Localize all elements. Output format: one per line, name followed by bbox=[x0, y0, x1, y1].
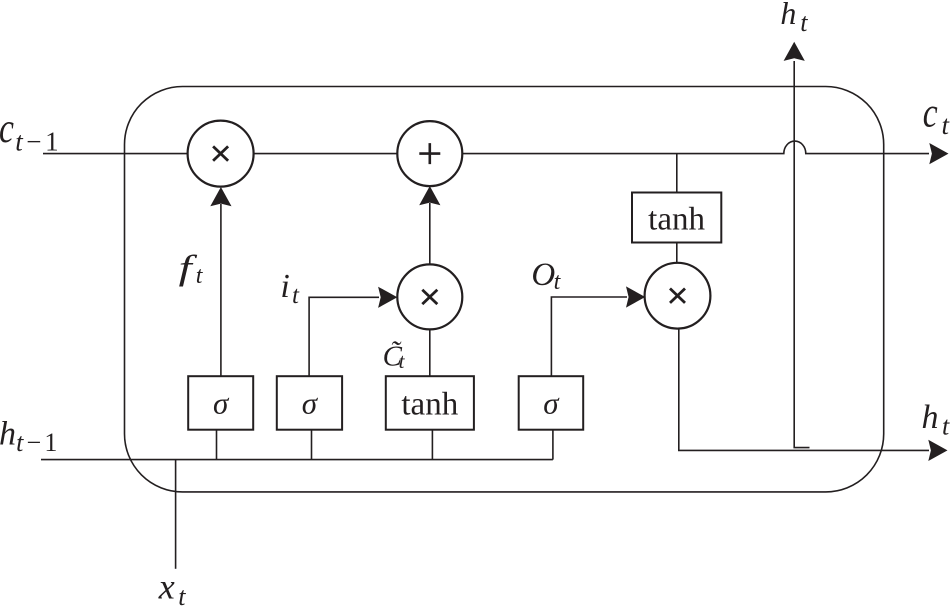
sigma box 2 (input gate) bbox=[277, 376, 342, 430]
svg-text:h: h bbox=[922, 399, 939, 436]
arrowhead into plus circle bbox=[419, 186, 440, 205]
wire: h_t vertical branch up to top with foot bbox=[794, 61, 809, 448]
wire: cell state line c with hop over h_t vertical bbox=[43, 141, 929, 154]
arrowhead into multiply circle 3 bbox=[626, 286, 645, 307]
multiply circle 1 (forget gate product) bbox=[188, 121, 254, 187]
svg-text:σ: σ bbox=[302, 386, 319, 421]
wire: f_t vertical from sigma1 up to multiply circle bbox=[220, 204, 222, 376]
svg-text:h: h bbox=[780, 0, 796, 31]
plus circle (cell state addition) bbox=[397, 121, 462, 186]
wire: h_(t-1) input line along bottom bbox=[41, 459, 553, 461]
wire: sigma2 bottom stub bbox=[311, 430, 313, 460]
svg-text:σ: σ bbox=[543, 386, 560, 421]
svg-text:t: t bbox=[942, 110, 950, 140]
label x_t bbox=[158, 566, 186, 607]
arrowhead c_t output bbox=[929, 143, 948, 164]
wire: gate tanh bottom stub bbox=[431, 430, 433, 460]
wire: from c line down into top tanh box bbox=[676, 154, 678, 193]
svg-text:t−1: t−1 bbox=[15, 126, 62, 156]
svg-text:x: x bbox=[158, 566, 175, 606]
wire: top tanh box down to multiply circle 3 bbox=[676, 243, 678, 263]
label C~_t (candidate) bbox=[383, 340, 406, 373]
arrowhead h_t right output bbox=[928, 440, 947, 461]
arrowhead h_t top output bbox=[784, 42, 805, 61]
svg-text:t: t bbox=[399, 349, 406, 373]
label h_t top bbox=[780, 0, 808, 37]
wire: x_t drop from h line bbox=[175, 460, 177, 569]
label c_t right bbox=[923, 90, 950, 140]
svg-text:t: t bbox=[178, 582, 186, 607]
label O_t bbox=[531, 257, 561, 295]
svg-text:c: c bbox=[923, 90, 938, 136]
multiply circle 3 (output gate product) bbox=[645, 263, 711, 329]
label c_(t-1) bbox=[0, 106, 62, 157]
svg-text:t: t bbox=[554, 269, 562, 295]
LSTM cell body rounded rectangle bbox=[125, 87, 884, 492]
svg-text:h: h bbox=[0, 416, 16, 453]
sigma box 3 (output gate) bbox=[519, 376, 584, 430]
svg-text:t−1: t−1 bbox=[16, 428, 61, 457]
wire: h output from multiply circle 3 down then right bbox=[679, 329, 929, 451]
multiply circle 2 (input gate product) bbox=[397, 264, 462, 329]
arrowhead into multiply circle 1 bbox=[210, 187, 231, 206]
wire: sigma1 bottom stub bbox=[216, 430, 218, 460]
wire: i_t from sigma2 up and right to multiply circle 2 bbox=[309, 297, 379, 376]
svg-text:t: t bbox=[292, 282, 300, 309]
svg-text:tanh: tanh bbox=[648, 202, 705, 238]
wire: sigma3 bottom stub bbox=[552, 430, 554, 460]
wire: candidate from gate tanh box up to multiply circle 2 bbox=[429, 329, 431, 376]
svg-text:t: t bbox=[942, 411, 950, 440]
label h_(t-1) bbox=[0, 416, 61, 458]
svg-text:i: i bbox=[280, 268, 289, 305]
label h_t right bbox=[922, 399, 950, 440]
gate tanh box (candidate) bbox=[386, 376, 474, 430]
sigma box 1 (forget gate) bbox=[188, 376, 253, 430]
top tanh box bbox=[632, 193, 721, 243]
svg-text:O: O bbox=[531, 257, 555, 293]
label f_t bbox=[179, 248, 204, 289]
arrowhead into multiply circle 2 bbox=[378, 287, 397, 308]
label i_t bbox=[280, 268, 300, 309]
svg-text:c: c bbox=[0, 106, 14, 152]
svg-text:tanh: tanh bbox=[401, 387, 458, 423]
svg-text:t: t bbox=[196, 263, 204, 289]
svg-text:t: t bbox=[800, 8, 808, 37]
wire: multiply circle 2 up to plus circle bbox=[429, 203, 431, 264]
wire: O_t from sigma3 up and right to multiply circle 3 bbox=[551, 297, 627, 376]
svg-text:σ: σ bbox=[213, 386, 230, 421]
